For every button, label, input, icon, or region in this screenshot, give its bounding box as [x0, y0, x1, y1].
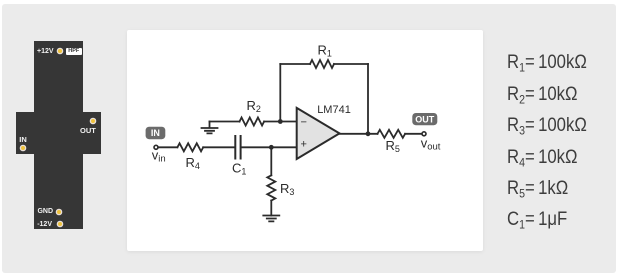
PCB module (left) : narrow column — [34, 41, 83, 229]
wire feedback top left — [280, 63, 310, 65]
wire feedback top right — [334, 63, 368, 65]
op-amp name LM741 — [317, 104, 351, 116]
svg-text:IN: IN — [151, 128, 160, 138]
label R1 — [318, 43, 332, 59]
white schematic card — [127, 30, 483, 252]
node label vin — [152, 148, 166, 165]
svg-text:OUT: OUT — [415, 114, 435, 124]
module pin dot IN — [21, 146, 25, 150]
svg-text:R2: R2 — [247, 98, 261, 114]
op-amp minus pin label — [301, 116, 307, 128]
svg-text:R5: R5 — [386, 138, 400, 154]
node vin open terminal — [154, 145, 158, 149]
value R5 — [507, 179, 568, 200]
value C1 — [507, 210, 567, 231]
svg-text:LM741: LM741 — [317, 104, 351, 116]
module pin dot OUT — [91, 119, 95, 123]
label R3 — [280, 181, 294, 197]
wire R4 to C1 — [203, 146, 234, 148]
wire feedback right vertical — [367, 64, 369, 134]
wire feedback left vertical — [279, 64, 281, 122]
module label +12V — [37, 48, 53, 56]
value R1 — [507, 53, 587, 74]
node junction inverting input / feedback — [278, 119, 283, 124]
node label vout — [421, 136, 441, 153]
wire R5 to vout — [405, 133, 422, 135]
module label IN — [19, 136, 27, 144]
svg-text:−: − — [301, 116, 307, 128]
resistor R5 — [378, 130, 406, 138]
value R2 — [507, 85, 578, 106]
wire op-amp output — [340, 133, 378, 135]
module pin dot +12V — [58, 49, 62, 53]
ground (left of R2) — [202, 122, 218, 134]
OUT port tag — [412, 113, 437, 125]
ground (below R3) — [263, 216, 279, 222]
value R4 — [507, 148, 578, 169]
node junction main wire / R3 — [269, 145, 274, 150]
HPF tag — [66, 48, 82, 55]
wire ground to R2 — [210, 121, 240, 123]
wire junction down to R3 — [270, 147, 272, 175]
module pin dot -12V — [58, 222, 62, 226]
label R4 — [186, 155, 200, 171]
wire R3 to ground — [270, 201, 272, 216]
label R2 — [247, 98, 261, 114]
wire vin to R4 — [158, 146, 177, 148]
resistor R1 — [310, 60, 334, 68]
wire R2 to op-amp minus input — [264, 121, 297, 123]
resistor R2 — [240, 118, 265, 126]
op-amp plus pin label — [301, 139, 307, 151]
wire C1 to op-amp plus input — [242, 146, 297, 148]
module label OUT — [80, 127, 96, 135]
svg-text:R3: R3 — [280, 181, 294, 197]
module label -12V — [36, 221, 52, 229]
svg-text:R1: R1 — [318, 43, 332, 59]
module pin dot GND — [57, 210, 61, 214]
svg-text:C1: C1 — [232, 161, 246, 177]
PCB module wide middle section — [16, 112, 101, 154]
svg-text:+: + — [301, 139, 307, 151]
module label GND — [37, 208, 53, 216]
IN port tag — [146, 127, 166, 140]
svg-text:vout: vout — [421, 136, 441, 153]
svg-text:R4: R4 — [186, 155, 200, 171]
label R5 — [386, 138, 400, 154]
resistor R3 — [267, 175, 275, 200]
node junction output / feedback — [366, 131, 371, 136]
op-amp U1 LM741 — [297, 108, 340, 159]
capacitor C1 — [235, 136, 240, 159]
label C1 — [232, 161, 246, 177]
svg-text:vin: vin — [152, 148, 166, 165]
resistor R4 — [177, 143, 203, 151]
node vout open terminal — [422, 132, 426, 136]
value R3 — [507, 116, 587, 137]
